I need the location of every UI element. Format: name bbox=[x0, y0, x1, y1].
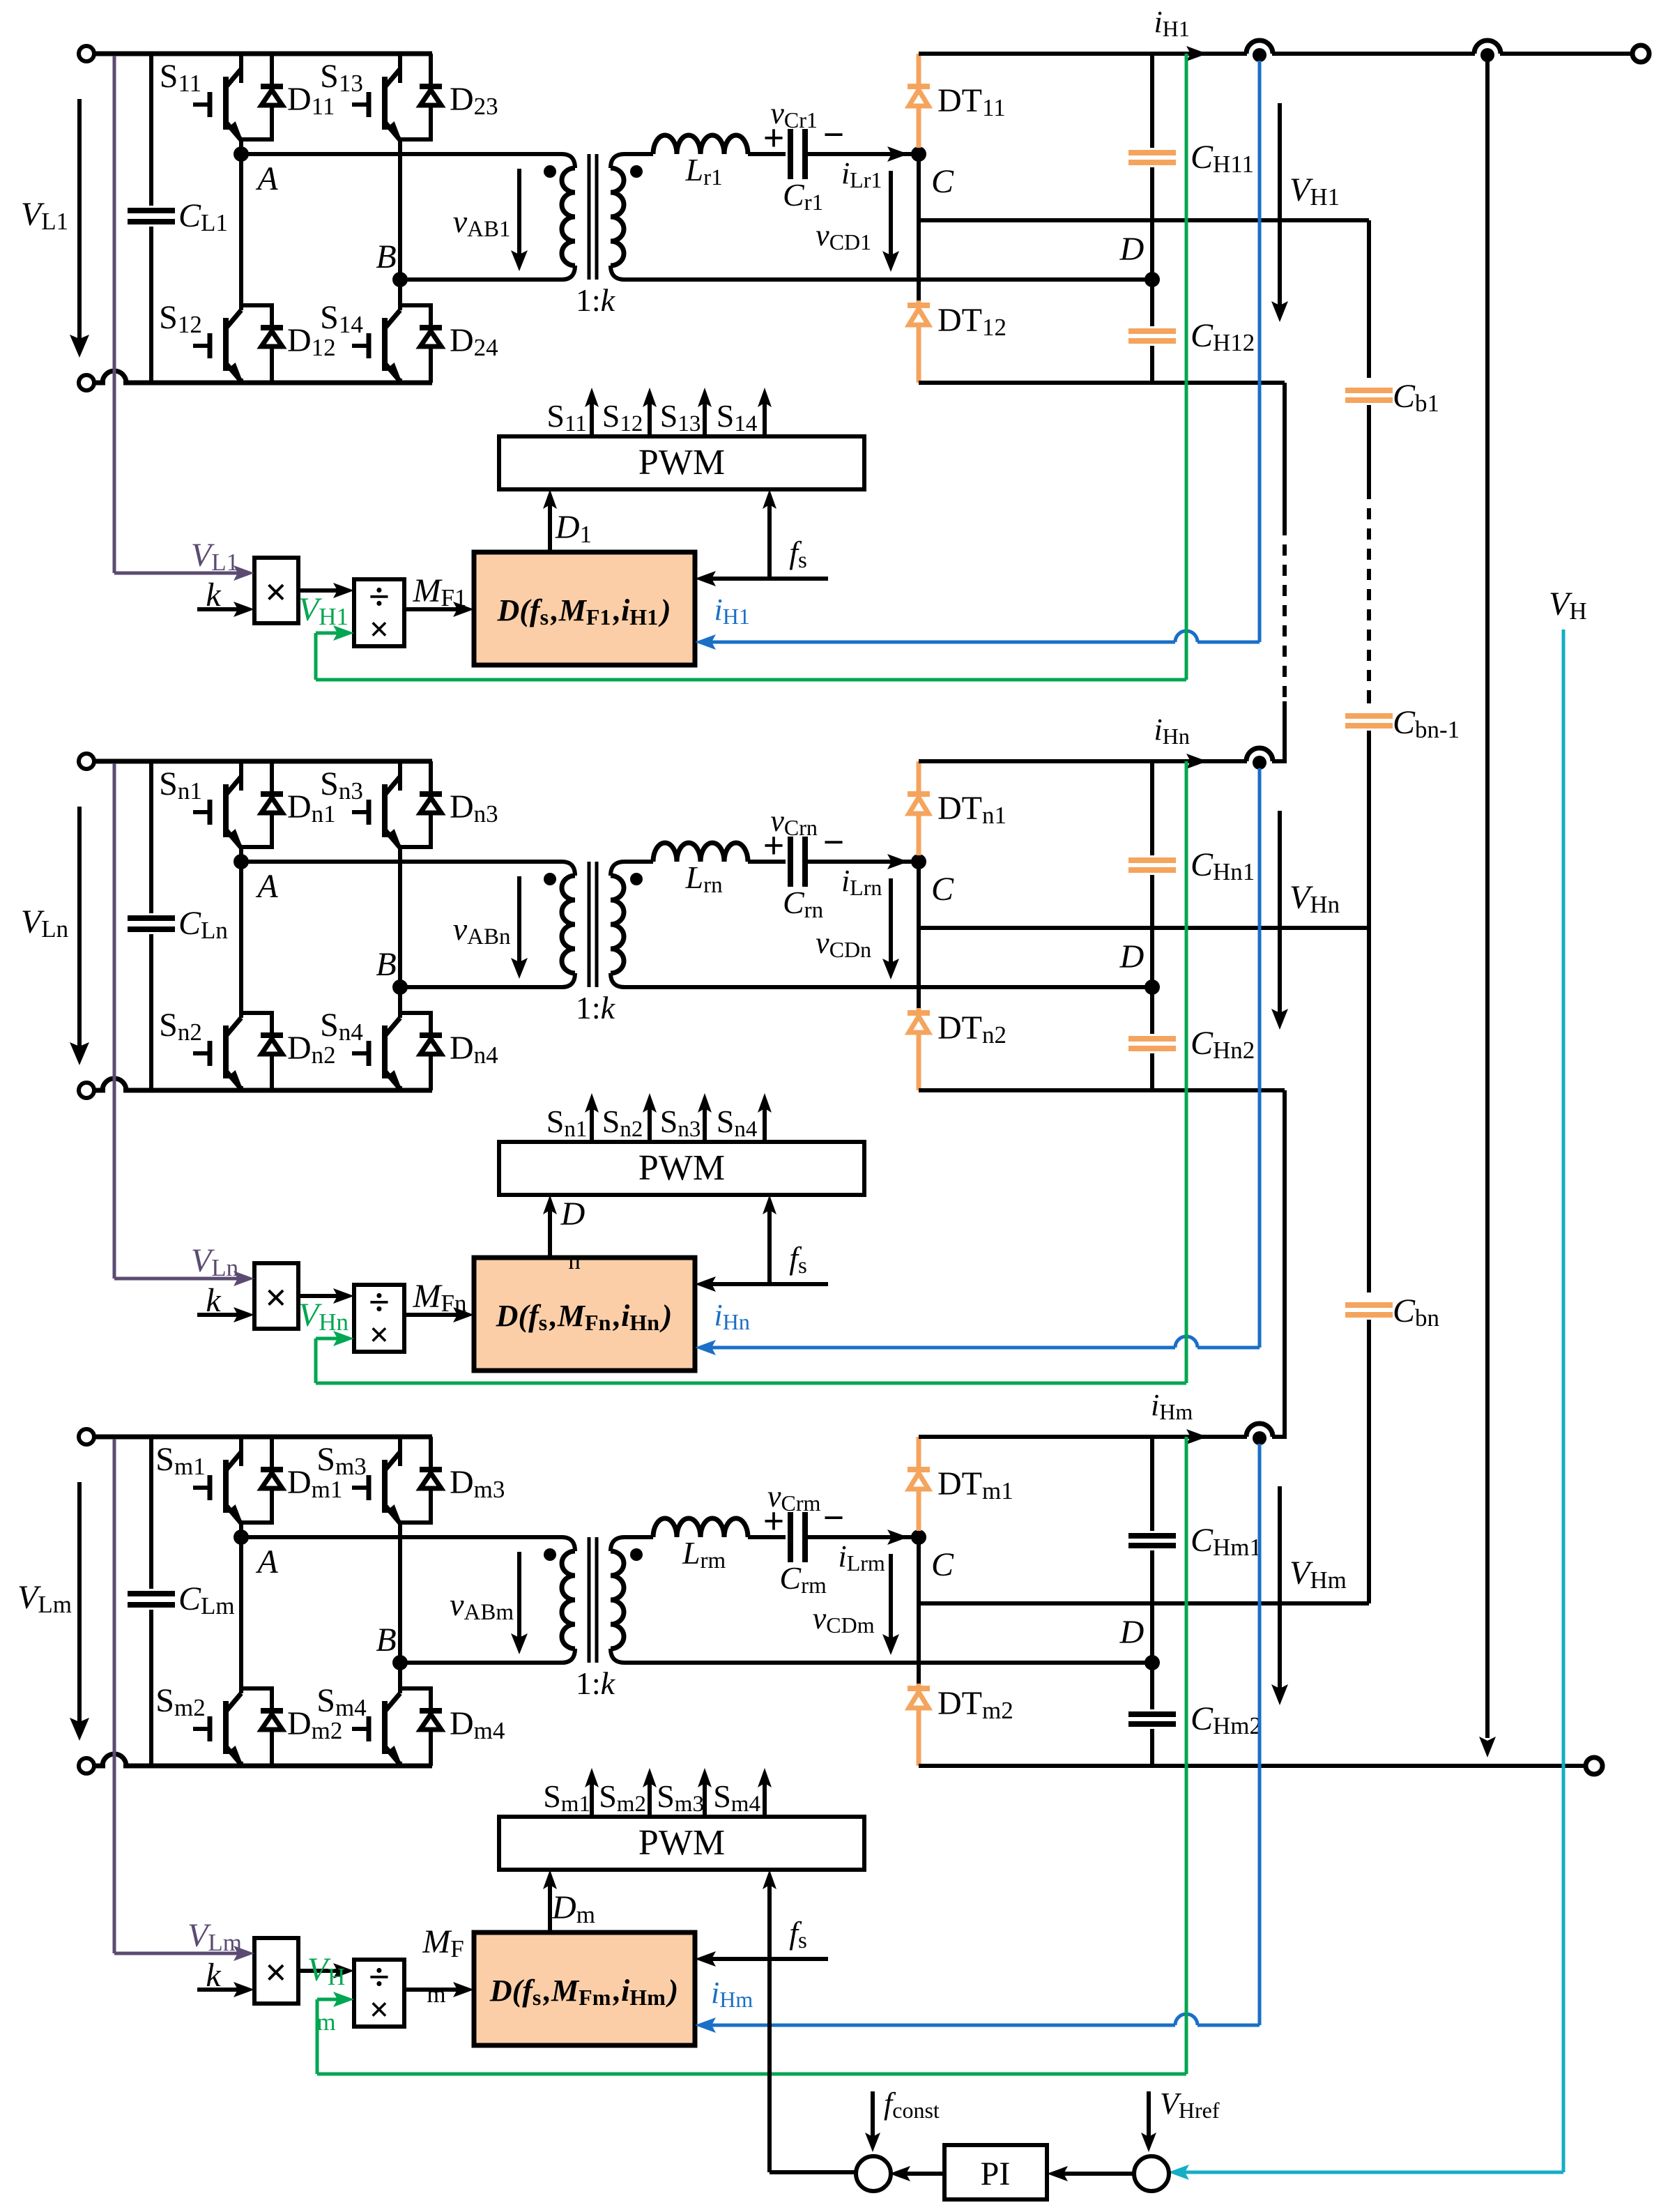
transformer primary dot bbox=[544, 1548, 556, 1561]
svg-text:Dm: Dm bbox=[551, 1889, 598, 1928]
PWM block (n) bbox=[499, 1142, 864, 1195]
svg-text:Sn3: Sn3 bbox=[320, 765, 366, 804]
svg-text:vCDm: vCDm bbox=[813, 1601, 878, 1638]
summing junction 1 bbox=[856, 2156, 891, 2191]
sense node dot (n) bbox=[1253, 756, 1266, 770]
diode DTn1 bbox=[917, 761, 921, 791]
svg-text:Cbn: Cbn bbox=[1393, 1292, 1442, 1332]
svg-text:k: k bbox=[206, 1282, 222, 1319]
svg-text:iLr1: iLr1 bbox=[841, 156, 885, 192]
diode Dm2 bbox=[239, 1686, 274, 1691]
svg-text:Sm2: Sm2 bbox=[155, 1682, 208, 1721]
node B bbox=[398, 139, 402, 310]
wire node C line to Cb chain bbox=[919, 1601, 1369, 1605]
transistor Sm1 bbox=[239, 1437, 243, 1466]
svg-text:Lrm: Lrm bbox=[682, 1535, 728, 1573]
svg-text:VH: VH bbox=[307, 1951, 349, 1990]
label iH1 with arrow bbox=[1186, 46, 1207, 61]
svg-text:CLn: CLn bbox=[178, 905, 231, 944]
svg-text:+: + bbox=[763, 1500, 785, 1542]
gate signal arrows bbox=[590, 1779, 594, 1817]
svg-text:1:k: 1:k bbox=[576, 282, 616, 318]
svg-text:Dn4: Dn4 bbox=[450, 1030, 501, 1069]
node D bbox=[1145, 272, 1160, 287]
svg-text:fs: fs bbox=[789, 1915, 809, 1953]
transistor S12 bbox=[239, 154, 243, 310]
node A bbox=[239, 847, 243, 862]
capacitor Crm bbox=[748, 1535, 786, 1539]
inductor Lrn bbox=[625, 860, 653, 864]
wire node A to transformer bbox=[241, 860, 562, 864]
transformer T (n) primary bbox=[562, 862, 575, 876]
diode Dn4 bbox=[398, 1011, 433, 1015]
VLm input voltage arrow bbox=[77, 1482, 82, 1729]
svg-text:fconst: fconst bbox=[884, 2087, 942, 2123]
node C bbox=[911, 1530, 926, 1545]
capacitor Cbn bbox=[1345, 1305, 1393, 1315]
capacitor Cb1 bbox=[1367, 220, 1371, 378]
diode Dm1 bbox=[270, 1437, 274, 1470]
svg-text:Crm: Crm bbox=[779, 1560, 829, 1599]
svg-text:MFn: MFn bbox=[413, 1278, 470, 1317]
svg-text:Sn1: Sn1 bbox=[159, 765, 205, 804]
svg-text:MF1: MF1 bbox=[413, 572, 470, 611]
capacitor CH11 bbox=[1150, 54, 1154, 148]
transformer core bbox=[588, 154, 591, 280]
label k with arrow bbox=[197, 607, 243, 611]
arrow multiplier to divider bbox=[298, 588, 343, 593]
diode DTn2 bbox=[917, 862, 921, 1008]
wire output bus iH1 (1) bbox=[919, 52, 1247, 56]
svg-text:DT11: DT11 bbox=[937, 82, 1009, 121]
multiplier block (1) bbox=[254, 558, 298, 623]
svg-text:vABm: vABm bbox=[450, 1587, 516, 1625]
D block D(fs,MF1,iH1) bbox=[474, 552, 695, 665]
diode Dm4 bbox=[398, 1686, 433, 1691]
svg-text:VLm: VLm bbox=[187, 1917, 245, 1956]
svg-text:×: × bbox=[265, 1951, 287, 1994]
D block D(fs,MFn,iHn) bbox=[474, 1258, 695, 1371]
diode D11 bbox=[270, 54, 274, 86]
transformer secondary dot bbox=[630, 1548, 643, 1561]
svg-text:iHm: iHm bbox=[711, 1976, 756, 2012]
transistor Sm4 bbox=[352, 1693, 400, 1764]
svg-text:Dm4: Dm4 bbox=[450, 1705, 507, 1744]
wire Cbn-1 to module n C line bbox=[1367, 731, 1371, 928]
bus hop over sense node bbox=[1246, 748, 1273, 761]
transformer core bbox=[588, 1537, 591, 1663]
label Dm duty arrow to PWM bbox=[548, 1881, 552, 1932]
svg-text:A: A bbox=[255, 160, 278, 197]
transformer core bbox=[588, 862, 591, 987]
svg-text:Sn4: Sn4 bbox=[717, 1104, 760, 1142]
node D bbox=[1145, 979, 1160, 995]
svg-text:PWM: PWM bbox=[638, 1148, 725, 1188]
PI block bbox=[944, 2145, 1047, 2199]
svg-text:B: B bbox=[376, 946, 396, 983]
wire top rail (m bridge) bbox=[94, 1435, 432, 1440]
VLm sense line (purple) bbox=[113, 1439, 116, 1953]
svg-text:+: + bbox=[763, 117, 785, 159]
arrow multiplier to divider bbox=[298, 1294, 343, 1298]
svg-text:CHm2: CHm2 bbox=[1191, 1700, 1264, 1739]
divider block (n) bbox=[354, 1285, 404, 1352]
svg-text:iHm: iHm bbox=[1151, 1388, 1195, 1424]
svg-text:×: × bbox=[265, 571, 287, 614]
multiplier block (n) bbox=[254, 1263, 298, 1329]
blue sense line from bus (1) bbox=[1258, 61, 1262, 642]
svg-text:Sm1: Sm1 bbox=[543, 1778, 593, 1817]
wire fs to D block bbox=[706, 1957, 828, 1961]
summing junction 2 bbox=[1134, 2156, 1169, 2191]
wire node B to transformer bbox=[400, 277, 562, 282]
capacitor Crn bbox=[748, 860, 786, 864]
arrow summing junction 2 to PI bbox=[1058, 2172, 1135, 2176]
wire rectifier bottom rail (1) bbox=[919, 381, 1285, 385]
svg-text:CH11: CH11 bbox=[1191, 139, 1257, 178]
wire node C line to Cb chain bbox=[919, 218, 1369, 222]
VH1 feedback (green) from bus bbox=[1185, 54, 1188, 680]
svg-text:D23: D23 bbox=[450, 81, 501, 120]
wire bottom rail (1 bridge) bbox=[94, 381, 105, 386]
transformer secondary bbox=[611, 154, 625, 168]
svg-text:DTn1: DTn1 bbox=[937, 790, 1009, 829]
wire fs from summing junction bbox=[767, 1959, 772, 2172]
svg-text:Cbn-1: Cbn-1 bbox=[1393, 704, 1462, 743]
multiplier block (m) bbox=[254, 1938, 298, 2004]
transformer primary dot bbox=[544, 165, 556, 178]
wire fs to D block bbox=[706, 1282, 828, 1286]
capacitor Cbn-1 bbox=[1345, 716, 1393, 726]
node B bbox=[398, 847, 402, 1018]
label VH with arrow bbox=[1485, 61, 1490, 1738]
svg-text:×: × bbox=[265, 1276, 287, 1320]
wire Cr to node C with ir1 arrow bbox=[807, 152, 919, 156]
svg-text:C: C bbox=[931, 163, 954, 200]
svg-text:Sm4: Sm4 bbox=[713, 1778, 763, 1817]
svg-text:iH1: iH1 bbox=[714, 593, 752, 629]
diode DT11 bbox=[917, 54, 921, 84]
VL1 input voltage arrow bbox=[77, 99, 82, 346]
svg-text:iLrm: iLrm bbox=[838, 1539, 887, 1576]
capacitor CHm2 bbox=[1150, 1663, 1154, 1709]
wire fs to D block bbox=[706, 577, 828, 581]
svg-text:k: k bbox=[206, 577, 222, 613]
VLm sense arrow into multiplier bbox=[234, 1946, 254, 1961]
input terminal - (n) bbox=[79, 1083, 94, 1098]
svg-text:PWM: PWM bbox=[638, 443, 725, 482]
svg-text:Sm1: Sm1 bbox=[155, 1441, 208, 1480]
diode Dn3 bbox=[429, 761, 433, 794]
svg-text:S12: S12 bbox=[602, 398, 645, 436]
diode DTm1 bbox=[917, 1437, 921, 1467]
svg-text:PI: PI bbox=[981, 2156, 1011, 2192]
wire node B to transformer bbox=[400, 1661, 562, 1665]
VLn sense line (purple) bbox=[113, 763, 116, 1279]
diode DTm2 bbox=[917, 1537, 921, 1684]
svg-text:VLm: VLm bbox=[17, 1579, 75, 1618]
svg-text:B: B bbox=[376, 1622, 396, 1658]
svg-text:C: C bbox=[931, 1546, 954, 1583]
D block D(fs,MFm,iHm) bbox=[474, 1932, 695, 2045]
inductor Lrm bbox=[625, 1535, 653, 1539]
svg-text:n: n bbox=[568, 1235, 583, 1274]
wire Cbn to module m C line bbox=[1367, 1320, 1371, 1603]
label D1 duty arrow to PWM bbox=[548, 501, 552, 552]
svg-text:S11: S11 bbox=[160, 58, 204, 97]
VHn feedback (green) from bus bbox=[1185, 761, 1188, 1383]
wire hop over sense line bbox=[102, 1754, 126, 1766]
node B bbox=[398, 1523, 402, 1693]
label iHm with arrow bbox=[1186, 1429, 1207, 1444]
transistor Sm3 bbox=[398, 1437, 402, 1466]
input terminal + (n) bbox=[79, 754, 94, 769]
blue sense line from bus (m) bbox=[1258, 1444, 1262, 2025]
svg-text:CL1: CL1 bbox=[178, 197, 231, 236]
svg-text:Sn1: Sn1 bbox=[546, 1104, 590, 1142]
label MF1 with arrow to D block bbox=[404, 607, 463, 611]
label MFn with arrow to D block bbox=[404, 1313, 463, 1317]
svg-text:VH1: VH1 bbox=[298, 591, 351, 630]
wire S-D jog upper left bbox=[239, 137, 243, 139]
svg-text:m: m bbox=[316, 1997, 338, 2036]
label fs with arrow to PWM bbox=[767, 1206, 772, 1284]
VL1 sense line (purple) bbox=[113, 56, 116, 573]
svg-text:MF: MF bbox=[422, 1923, 466, 1962]
svg-text:×: × bbox=[369, 1315, 390, 1354]
svg-text:D1: D1 bbox=[555, 509, 595, 548]
capacitor CLm bbox=[149, 1437, 153, 1589]
capacitor CH12 bbox=[1150, 280, 1154, 326]
node A bbox=[239, 139, 243, 154]
transformer T (1) primary bbox=[562, 154, 575, 168]
gate signal arrows bbox=[590, 399, 594, 436]
svg-text:vABn: vABn bbox=[453, 911, 514, 949]
wire bottom rail (m bridge) bbox=[94, 1764, 105, 1769]
capacitor Cr1 bbox=[748, 152, 786, 156]
svg-text:Cr1: Cr1 bbox=[783, 177, 826, 215]
transistor S14 bbox=[352, 310, 400, 381]
wire node A to transformer bbox=[241, 152, 562, 156]
input terminal - (1) bbox=[79, 375, 94, 390]
svg-text:D: D bbox=[1119, 1614, 1145, 1651]
svg-text:Dm3: Dm3 bbox=[450, 1464, 507, 1503]
svg-text:DTm2: DTm2 bbox=[937, 1685, 1016, 1724]
svg-text:A: A bbox=[255, 1543, 278, 1580]
svg-text:D: D bbox=[1119, 231, 1145, 268]
output terminal - (VH) bbox=[1586, 1757, 1602, 1774]
svg-text:S14: S14 bbox=[717, 398, 760, 436]
node C bbox=[911, 854, 926, 869]
wire secondary bottom to node D bbox=[625, 1661, 1152, 1665]
svg-text:−: − bbox=[823, 1497, 845, 1539]
diode Dn2 bbox=[239, 1011, 274, 1015]
label VHref with arrow bbox=[1147, 2091, 1151, 2140]
svg-text:fs: fs bbox=[789, 535, 809, 573]
VLn input voltage arrow bbox=[77, 807, 82, 1053]
svg-text:DTm1: DTm1 bbox=[937, 1465, 1016, 1504]
svg-text:Sm4: Sm4 bbox=[316, 1682, 369, 1721]
capacitor CHn1 bbox=[1150, 761, 1154, 855]
label Dn duty arrow to PWM bbox=[548, 1206, 552, 1258]
output bus sense dot 2 (VH) bbox=[1474, 40, 1501, 54]
wire S-D jog upper right bbox=[398, 137, 402, 139]
svg-text:VH1: VH1 bbox=[1289, 171, 1342, 211]
VL1 sense arrow into multiplier bbox=[234, 565, 254, 581]
iHm feedback (blue) into D block bbox=[1197, 2024, 1260, 2027]
svg-text:−: − bbox=[823, 821, 845, 863]
svg-text:Dn3: Dn3 bbox=[450, 788, 501, 827]
svg-text:VL1: VL1 bbox=[191, 537, 241, 576]
svg-text:CHn1: CHn1 bbox=[1191, 846, 1257, 885]
transistor Sn2 bbox=[239, 862, 243, 1018]
node D bbox=[1145, 1655, 1160, 1670]
wire top rail (1 bridge) bbox=[94, 52, 432, 56]
transistor Sn4 bbox=[352, 1018, 400, 1089]
wire node A to transformer bbox=[241, 1535, 562, 1539]
label k with arrow bbox=[197, 1988, 243, 1992]
svg-text:iLrn: iLrn bbox=[841, 864, 885, 900]
wire secondary bottom to node D bbox=[625, 277, 1152, 282]
svg-text:CHn2: CHn2 bbox=[1191, 1025, 1257, 1064]
diode Dn1 bbox=[270, 761, 274, 794]
wire S-D jog upper left bbox=[239, 845, 243, 847]
wire output bus iHm (m) bbox=[919, 1435, 1247, 1439]
wire node B to transformer bbox=[400, 985, 562, 989]
svg-text:vCD1: vCD1 bbox=[816, 218, 874, 254]
transistor Sn1 bbox=[239, 761, 243, 791]
capacitor CLn bbox=[149, 761, 153, 913]
svg-text:Sn2: Sn2 bbox=[159, 1007, 205, 1046]
PWM block (m) bbox=[499, 1817, 864, 1870]
capacitor CHn2 bbox=[1150, 987, 1154, 1034]
gate signal arrows bbox=[590, 1104, 594, 1142]
label fs with arrow to PWM bbox=[767, 501, 772, 579]
label fs with arrow to PWM bbox=[767, 1881, 772, 1959]
svg-text:k: k bbox=[206, 1957, 222, 1994]
svg-text:C: C bbox=[931, 871, 954, 908]
svg-text:DT12: DT12 bbox=[937, 302, 1009, 341]
VLn sense arrow into multiplier bbox=[234, 1271, 254, 1286]
svg-text:Sn2: Sn2 bbox=[602, 1104, 645, 1142]
blue sense line from bus (n) bbox=[1258, 768, 1262, 1348]
divider block (1) bbox=[354, 579, 404, 646]
svg-text:vCDn: vCDn bbox=[816, 926, 874, 962]
wire hop over sense line bbox=[102, 371, 126, 383]
svg-text:−: − bbox=[823, 114, 845, 155]
input terminal - (m) bbox=[79, 1758, 94, 1774]
svg-text:B: B bbox=[376, 238, 396, 275]
svg-text:VH: VH bbox=[1549, 586, 1590, 625]
svg-text:S11: S11 bbox=[546, 398, 589, 436]
input terminal + (1) bbox=[79, 46, 94, 61]
wire output bus iHn (n) bbox=[919, 759, 1247, 763]
label fconst with arrow bbox=[871, 2091, 875, 2140]
transformer T (m) primary bbox=[562, 1537, 575, 1551]
diode Dm3 bbox=[429, 1437, 433, 1470]
bus hop over sense node bbox=[1246, 40, 1273, 54]
capacitor CL1 bbox=[149, 54, 153, 206]
svg-text:VL1: VL1 bbox=[21, 196, 71, 235]
svg-text:+: + bbox=[763, 825, 785, 867]
svg-text:PWM: PWM bbox=[638, 1823, 725, 1863]
svg-text:S12: S12 bbox=[159, 299, 205, 338]
svg-text:Sm2: Sm2 bbox=[599, 1778, 649, 1817]
diode D24 bbox=[398, 303, 433, 307]
transformer secondary bbox=[611, 1537, 625, 1551]
svg-text:Sm3: Sm3 bbox=[316, 1441, 369, 1480]
svg-text:VHref: VHref bbox=[1160, 2087, 1222, 2123]
transistor Sm2 bbox=[239, 1537, 243, 1693]
diode DT12 bbox=[917, 154, 921, 300]
wire rectifier bottom rail (n) bbox=[919, 1088, 1285, 1092]
svg-text:Crn: Crn bbox=[783, 885, 826, 923]
svg-text:CLm: CLm bbox=[178, 1580, 238, 1619]
capacitor CHm1 bbox=[1150, 1437, 1154, 1531]
node A bbox=[239, 1523, 243, 1537]
transistor S11 bbox=[239, 54, 243, 83]
wire secondary bottom to node D bbox=[625, 985, 1152, 989]
svg-text:1:k: 1:k bbox=[576, 1665, 616, 1701]
VHm feedback (green) from bus bbox=[1185, 1437, 1188, 2074]
wire Cr to node C with irn arrow bbox=[807, 860, 919, 864]
wire S-D jog upper left bbox=[239, 1520, 243, 1523]
svg-text:S13: S13 bbox=[660, 398, 703, 436]
svg-text:A: A bbox=[255, 868, 278, 905]
output terminal + (VH) bbox=[1632, 45, 1649, 62]
inductor Lr1 bbox=[625, 152, 653, 156]
wire series link module1 bottom to module n bus bbox=[1283, 383, 1287, 524]
svg-text:×: × bbox=[369, 609, 390, 648]
svg-text:CHm1: CHm1 bbox=[1191, 1522, 1264, 1561]
wire bottom rail (n bridge) bbox=[94, 1088, 105, 1093]
svg-text:Sn4: Sn4 bbox=[320, 1007, 366, 1046]
bus hop over sense node bbox=[1246, 1424, 1273, 1437]
svg-text:iH1: iH1 bbox=[1154, 5, 1192, 41]
arrow multiplier to divider bbox=[298, 1969, 343, 1973]
wire hop over sense line bbox=[102, 1078, 126, 1090]
svg-text:Cb1: Cb1 bbox=[1393, 378, 1442, 417]
svg-text:VLn: VLn bbox=[191, 1242, 241, 1281]
svg-text:×: × bbox=[369, 1990, 390, 2029]
label MFm with arrow to D block bbox=[404, 1988, 463, 1992]
svg-text:VHm: VHm bbox=[1289, 1555, 1349, 1594]
svg-text:Lr1: Lr1 bbox=[685, 152, 726, 190]
transformer secondary dot bbox=[630, 873, 643, 885]
wire rectifier bottom rail (m) bbox=[919, 1764, 1594, 1768]
transformer secondary bbox=[611, 862, 625, 876]
svg-text:D: D bbox=[1119, 938, 1145, 975]
node C bbox=[911, 146, 926, 162]
svg-text:m: m bbox=[427, 1969, 448, 2008]
wire Cb chain dashed segment bbox=[1367, 405, 1371, 488]
wire module n C line down to Cbn bbox=[1367, 928, 1371, 1292]
transistor Sn3 bbox=[398, 761, 402, 791]
transistor S13 bbox=[398, 54, 402, 83]
transformer primary dot bbox=[544, 873, 556, 885]
label iHn with arrow bbox=[1186, 754, 1207, 769]
label k with arrow bbox=[197, 1313, 243, 1317]
svg-text:D: D bbox=[560, 1196, 585, 1233]
svg-text:VHn: VHn bbox=[298, 1297, 351, 1336]
VH feedback line (cyan) bbox=[1562, 630, 1566, 2172]
wire Cr to node C with irm arrow bbox=[807, 1535, 919, 1539]
wire top rail (n bridge) bbox=[94, 759, 432, 764]
svg-text:VLn: VLn bbox=[21, 903, 71, 943]
svg-text:Sn3: Sn3 bbox=[660, 1104, 703, 1142]
svg-text:VHn: VHn bbox=[1289, 879, 1342, 918]
svg-text:Lrn: Lrn bbox=[685, 860, 726, 898]
